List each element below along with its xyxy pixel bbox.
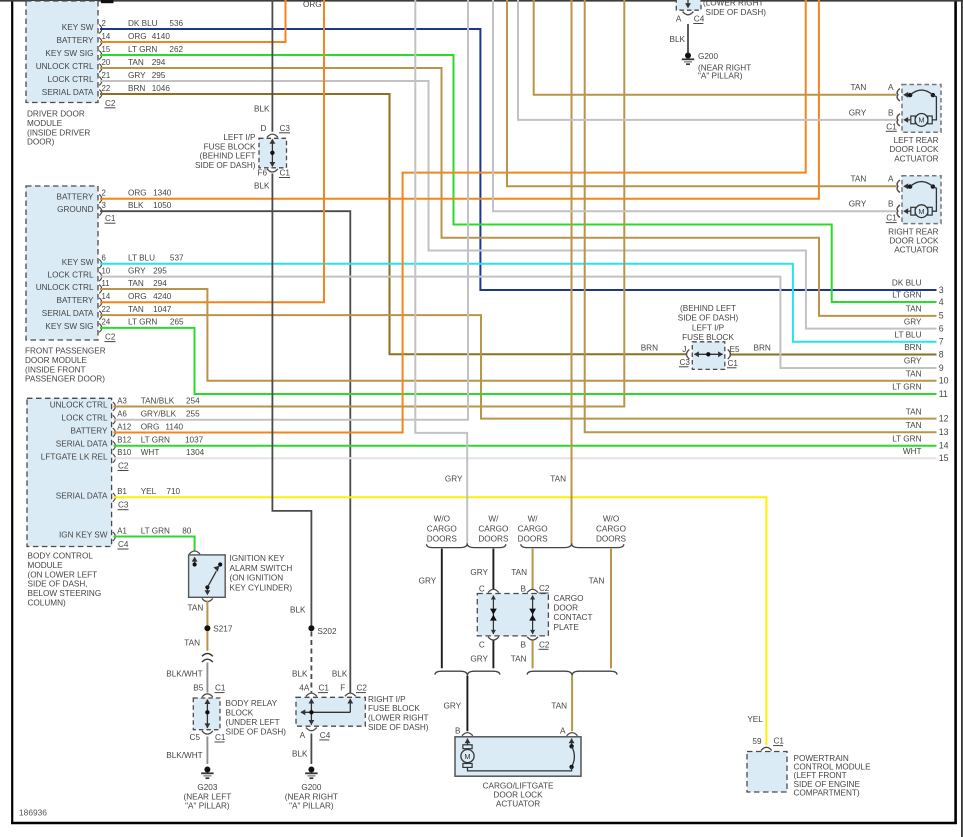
svg-text:TAN: TAN xyxy=(551,702,567,711)
svg-text:2: 2 xyxy=(102,189,106,198)
svg-text:7: 7 xyxy=(939,337,944,347)
svg-text:J: J xyxy=(682,345,686,354)
wire WHT 1304 BCM pin B10 to right stub 15 xyxy=(114,457,937,459)
powertrain control module caption xyxy=(794,754,872,797)
svg-text:LT GRN: LT GRN xyxy=(141,526,170,535)
wire TAN ignition switch to splice S217 xyxy=(206,601,208,626)
svg-text:DOOR LOCK: DOOR LOCK xyxy=(493,790,543,799)
svg-text:BLK: BLK xyxy=(254,104,270,113)
svg-text:B12: B12 xyxy=(117,436,131,445)
svg-text:13: 13 xyxy=(939,427,949,437)
ground G200 (bottom) caption xyxy=(285,783,338,811)
svg-text:B10: B10 xyxy=(117,448,132,457)
svg-text:LOCK CTRL: LOCK CTRL xyxy=(48,75,94,84)
svg-text:254: 254 xyxy=(186,396,200,405)
svg-text:A6: A6 xyxy=(117,410,127,419)
svg-text:4240: 4240 xyxy=(153,292,172,301)
svg-text:ACTUATOR: ACTUATOR xyxy=(496,799,540,808)
cargo/liftgate door lock actuator caption xyxy=(483,782,554,809)
svg-text:WHT: WHT xyxy=(903,447,922,456)
svg-text:C5: C5 xyxy=(190,733,201,742)
powertrain control module box xyxy=(747,752,787,793)
wire LT GRN 1037 BCM pin B12 to right stub 14 xyxy=(114,445,937,447)
svg-text:BELOW STEERING: BELOW STEERING xyxy=(28,589,102,598)
svg-text:LT BLU: LT BLU xyxy=(128,254,155,263)
svg-text:E5: E5 xyxy=(730,345,740,354)
svg-text:2: 2 xyxy=(102,19,106,28)
svg-text:4: 4 xyxy=(939,297,944,307)
right edge stub 14 LT GRN xyxy=(892,434,948,450)
svg-text:BLK: BLK xyxy=(332,669,348,678)
svg-text:BRN: BRN xyxy=(904,343,921,352)
svg-text:UNLOCK CTRL: UNLOCK CTRL xyxy=(36,283,94,292)
svg-text:FUSE BLOCK: FUSE BLOCK xyxy=(682,333,734,342)
right edge stub 6 GRY xyxy=(904,317,944,333)
wire ORG 1140 BCM pin A12 up off page xyxy=(114,0,806,433)
driver door module box xyxy=(26,1,98,103)
wire ORG 1340 passenger pin 2 up off page xyxy=(100,0,819,199)
svg-text:B: B xyxy=(521,585,527,594)
left rear door lock actuator pin A bracket xyxy=(897,89,900,101)
svg-text:CARGO/LIFTGATE: CARGO/LIFTGATE xyxy=(483,782,554,791)
svg-text:C1: C1 xyxy=(728,359,739,368)
wire TAN 294 passenger pin 11 to right stub 10 xyxy=(100,289,937,381)
front passenger door module pin 11 UNLOCK CTRL xyxy=(36,279,167,294)
svg-text:1340: 1340 xyxy=(153,189,172,198)
svg-text:BATTERY: BATTERY xyxy=(56,36,94,45)
svg-text:22: 22 xyxy=(102,305,111,314)
svg-text:BLK: BLK xyxy=(292,749,308,758)
svg-text:ORG: ORG xyxy=(303,0,322,9)
cargo/liftgate actuator pin brackets xyxy=(462,733,578,736)
body control module box xyxy=(27,398,112,546)
body control module pin B1 SERIAL DATA xyxy=(56,487,181,502)
splice S202 xyxy=(308,625,314,631)
right I/P fuse block (top fragment) caption xyxy=(703,0,766,17)
svg-text:LEFT I/P: LEFT I/P xyxy=(223,133,256,142)
wire BRN fuse block pin E5 to right stub 8 xyxy=(730,354,937,356)
cargo/liftgate actuator internal switch xyxy=(468,738,575,771)
svg-text:SIDE OF DASH): SIDE OF DASH) xyxy=(678,314,739,323)
svg-text:186936: 186936 xyxy=(19,808,47,818)
svg-text:5: 5 xyxy=(939,311,944,321)
svg-text:BRN: BRN xyxy=(128,84,145,93)
svg-text:DK BLU: DK BLU xyxy=(128,19,158,28)
body control module pin B10 LFTGATE LK REL xyxy=(41,448,205,463)
svg-text:YEL: YEL xyxy=(141,487,157,496)
wire BLK/WHT connector to body relay block pin B5 xyxy=(206,663,208,693)
splice S217 xyxy=(204,625,210,631)
svg-text:BRN: BRN xyxy=(641,344,658,353)
wire cargo column 4 (W/O cargo doors, TAN) xyxy=(610,549,612,669)
svg-text:SIDE OF DASH): SIDE OF DASH) xyxy=(706,8,767,17)
svg-text:20: 20 xyxy=(102,58,111,67)
svg-text:294: 294 xyxy=(153,279,167,288)
body control module pin A1 IGN KEY SW xyxy=(59,526,192,541)
svg-text:LT GRN: LT GRN xyxy=(141,436,170,445)
wire BLK/WHT body relay block to G203 xyxy=(206,737,208,765)
ground G200 (bottom) xyxy=(308,767,314,773)
left I/P fuse block (middle) caption xyxy=(678,304,739,342)
svg-text:TAN: TAN xyxy=(184,638,200,647)
svg-text:A1: A1 xyxy=(117,526,127,535)
cargo door contact plate bottom brackets xyxy=(488,637,538,640)
svg-text:YEL: YEL xyxy=(747,715,763,724)
svg-text:M: M xyxy=(464,752,470,761)
svg-text:B5: B5 xyxy=(193,684,203,693)
svg-text:TAN: TAN xyxy=(589,577,605,586)
wire cargo column 2 upper (W/ cargo doors, GRY) xyxy=(492,549,494,590)
svg-text:1047: 1047 xyxy=(153,305,172,314)
svg-text:GRY: GRY xyxy=(849,108,867,117)
wire BRN 1046 driver pin 22 to left I/P fuse block pin J xyxy=(100,94,687,354)
svg-text:14: 14 xyxy=(102,32,111,41)
wire GRY/BLK 255 BCM pin A6 up off page xyxy=(114,0,469,420)
ignition key alarm switch internals xyxy=(192,557,223,596)
svg-text:C3: C3 xyxy=(118,501,129,510)
ground G203 xyxy=(204,767,210,773)
svg-text:8: 8 xyxy=(939,349,944,359)
svg-text:GRY: GRY xyxy=(904,317,922,326)
right edge stub 9 GRY xyxy=(904,357,944,373)
wire cargo column 3 lower (TAN) xyxy=(532,641,534,669)
svg-text:RIGHT I/P: RIGHT I/P xyxy=(368,695,406,704)
right edge stub 10 TAN xyxy=(906,369,949,385)
svg-text:TAN: TAN xyxy=(851,175,867,184)
svg-text:TAN: TAN xyxy=(906,407,922,416)
svg-text:C4: C4 xyxy=(118,540,129,549)
svg-text:C2: C2 xyxy=(539,584,550,593)
svg-text:B: B xyxy=(888,108,894,117)
svg-text:SERIAL DATA: SERIAL DATA xyxy=(42,88,94,97)
svg-text:TAN/BLK: TAN/BLK xyxy=(141,396,175,405)
svg-text:CARGO: CARGO xyxy=(427,524,457,533)
svg-text:295: 295 xyxy=(152,71,166,80)
svg-text:C3: C3 xyxy=(280,124,291,133)
svg-text:ORG: ORG xyxy=(128,32,147,41)
wire cargo column 2 lower (GRY) xyxy=(492,641,494,669)
front passenger door module pin 22 SERIAL DATA xyxy=(42,305,172,320)
cargo door contact plate internal contact at x=532.6 xyxy=(529,595,536,634)
wire TAN from top to cargo door brace xyxy=(571,0,573,544)
ground G203 caption xyxy=(184,783,232,811)
svg-text:BODY RELAY: BODY RELAY xyxy=(226,699,278,708)
front passenger door module box xyxy=(26,186,98,340)
svg-text:M: M xyxy=(918,207,924,216)
svg-text:DOOR LOCK: DOOR LOCK xyxy=(889,237,939,246)
svg-text:CONTACT: CONTACT xyxy=(554,613,593,622)
svg-text:CARGO: CARGO xyxy=(478,524,508,533)
svg-text:C2: C2 xyxy=(105,333,116,342)
svg-text:294: 294 xyxy=(152,58,166,67)
svg-text:LT GRN: LT GRN xyxy=(892,383,921,392)
ground G200 (top) xyxy=(685,53,691,59)
wire BLK from top to left I/P fuse block pin D xyxy=(271,0,273,132)
svg-text:9: 9 xyxy=(939,363,944,373)
svg-text:KEY SW: KEY SW xyxy=(62,23,94,32)
svg-text:A12: A12 xyxy=(117,422,131,431)
svg-text:DK BLU: DK BLU xyxy=(892,279,922,288)
svg-text:CARGO: CARGO xyxy=(554,594,584,603)
svg-text:GRY/BLK: GRY/BLK xyxy=(141,410,177,419)
svg-text:GRY: GRY xyxy=(470,568,488,577)
svg-text:BLK: BLK xyxy=(670,35,686,44)
left rear door lock actuator box xyxy=(902,85,941,133)
svg-text:C: C xyxy=(479,585,485,594)
body relay block caption xyxy=(226,699,287,737)
svg-text:265: 265 xyxy=(170,318,184,327)
svg-text:TAN: TAN xyxy=(851,83,867,92)
svg-text:1050: 1050 xyxy=(153,201,172,210)
wire BLK dashed S202 to right I/P fuse block pin 4A xyxy=(310,632,312,693)
svg-text:GROUND: GROUND xyxy=(57,205,93,214)
svg-text:A3: A3 xyxy=(117,396,127,405)
svg-text:1037: 1037 xyxy=(185,436,204,445)
svg-text:W/: W/ xyxy=(488,515,499,524)
right rear door lock actuator labels xyxy=(849,175,894,209)
svg-text:12: 12 xyxy=(939,413,949,423)
wire BLK left I/P fuse block pin F6 down to splice S202 xyxy=(272,174,311,626)
svg-text:GRY: GRY xyxy=(849,200,867,209)
svg-text:1140: 1140 xyxy=(165,422,183,431)
driver door module caption xyxy=(27,110,90,147)
svg-text:255: 255 xyxy=(186,410,200,419)
svg-text:GRY: GRY xyxy=(445,474,463,483)
svg-text:BLK: BLK xyxy=(290,606,306,615)
wire TAN 1047 passenger pin 22 to right stub 12 xyxy=(100,315,937,419)
cargo doors column label W/O CARGO DOORS xyxy=(427,515,458,544)
svg-text:GRY: GRY xyxy=(904,357,922,366)
top crop line xyxy=(0,0,963,3)
svg-text:11: 11 xyxy=(939,389,948,399)
wire LT GRN 262 driver pin 15 to right stub 4 xyxy=(100,55,937,302)
left I/P fuse block (middle) box xyxy=(687,342,731,370)
svg-text:FRONT PASSENGER: FRONT PASSENGER xyxy=(25,347,106,356)
svg-text:15: 15 xyxy=(939,453,949,463)
svg-text:"A" PILLAR): "A" PILLAR) xyxy=(185,802,230,811)
driver door module pin 15 KEY SW SIG xyxy=(45,45,183,60)
svg-text:TAN: TAN xyxy=(511,568,527,577)
wire BLK right I/P fuse block to G200 xyxy=(310,734,312,765)
right I/P fuse block (bottom) box xyxy=(296,693,365,731)
svg-text:(LOWER RIGHT: (LOWER RIGHT xyxy=(703,0,764,8)
svg-text:FUSE BLOCK: FUSE BLOCK xyxy=(204,142,256,151)
svg-text:KEY CYLINDER): KEY CYLINDER) xyxy=(230,584,293,593)
svg-text:F6: F6 xyxy=(257,169,267,178)
svg-text:LT GRN: LT GRN xyxy=(128,45,157,54)
svg-text:TAN: TAN xyxy=(550,474,566,483)
svg-text:BATTERY: BATTERY xyxy=(56,193,94,202)
wire TAN/BLK 254 BCM pin A3 up off page xyxy=(114,0,625,407)
svg-text:LFTGATE LK REL: LFTGATE LK REL xyxy=(41,452,108,461)
svg-text:710: 710 xyxy=(166,487,180,496)
wire GRY brace to cargo actuator pin B xyxy=(466,676,468,731)
svg-text:SIDE OF DASH): SIDE OF DASH) xyxy=(195,161,256,170)
svg-text:G200: G200 xyxy=(698,52,718,61)
svg-text:TAN: TAN xyxy=(128,305,144,314)
svg-text:295: 295 xyxy=(153,266,167,275)
right edge stub 12 TAN xyxy=(906,407,949,423)
svg-text:SERIAL DATA: SERIAL DATA xyxy=(42,309,94,318)
svg-text:(BEHIND LEFT: (BEHIND LEFT xyxy=(680,304,736,313)
right edge stub 15 WHT xyxy=(903,447,949,463)
svg-text:C1: C1 xyxy=(105,214,116,223)
svg-text:SIDE OF DASH): SIDE OF DASH) xyxy=(226,728,287,737)
svg-text:TAN: TAN xyxy=(906,305,922,314)
svg-text:G200: G200 xyxy=(301,783,321,792)
wire ORG 4140 driver pin 14 up off page xyxy=(100,0,286,42)
svg-text:GRY: GRY xyxy=(128,71,146,80)
svg-text:COLUMN): COLUMN) xyxy=(28,599,66,608)
wire ORG 4240 passenger pin 14 up off page xyxy=(100,0,324,302)
svg-text:LOCK CTRL: LOCK CTRL xyxy=(48,271,94,280)
svg-text:(ON IGNITION: (ON IGNITION xyxy=(230,574,284,583)
right edge stub 13 TAN xyxy=(906,421,949,437)
inline connector on G203 branch xyxy=(202,654,213,663)
left I/P fuse block (top) box xyxy=(259,134,287,172)
svg-text:KEY SW: KEY SW xyxy=(62,258,94,267)
svg-text:DOORS: DOORS xyxy=(518,534,549,543)
svg-text:BLOCK: BLOCK xyxy=(226,709,254,718)
svg-text:GRY: GRY xyxy=(128,266,146,275)
svg-text:C2: C2 xyxy=(539,640,550,649)
svg-text:W/O: W/O xyxy=(434,515,450,524)
svg-text:KEY SW SIG: KEY SW SIG xyxy=(45,49,93,58)
wire DK BLU 536 driver pin 2 to right stub 3 xyxy=(100,29,937,290)
svg-text:RIGHT REAR: RIGHT REAR xyxy=(888,227,938,236)
svg-text:KEY SW SIG: KEY SW SIG xyxy=(45,322,93,331)
svg-text:W/O: W/O xyxy=(603,515,619,524)
svg-text:10: 10 xyxy=(102,266,111,275)
wire BLK 1050 passenger pin 3 to right I/P fuse block pin F xyxy=(100,211,350,693)
front passenger door module pin 14 BATTERY xyxy=(56,292,171,307)
svg-text:ALARM SWITCH: ALARM SWITCH xyxy=(230,564,293,573)
svg-text:BRN: BRN xyxy=(754,344,771,353)
cargo doors column label W/ CARGO DOORS xyxy=(518,515,549,544)
svg-text:TAN: TAN xyxy=(511,654,527,663)
svg-text:10: 10 xyxy=(939,376,949,386)
driver door module pin 22 SERIAL DATA xyxy=(42,84,171,99)
svg-text:WHT: WHT xyxy=(141,448,160,457)
svg-text:LT GRN: LT GRN xyxy=(128,318,157,327)
right edge stub 3 DK BLU xyxy=(892,279,944,295)
svg-text:BLK: BLK xyxy=(128,201,144,210)
svg-text:A: A xyxy=(888,83,894,92)
svg-text:LEFT I/P: LEFT I/P xyxy=(692,323,725,332)
wire TAN S217 to inline connector xyxy=(206,631,208,651)
svg-text:BLK/WHT: BLK/WHT xyxy=(166,751,202,760)
left rear door lock actuator motor M xyxy=(903,114,932,127)
svg-text:TAN: TAN xyxy=(906,369,922,378)
svg-text:59: 59 xyxy=(752,737,762,746)
svg-text:BATTERY: BATTERY xyxy=(56,296,94,305)
right rear door lock actuator internal switch xyxy=(903,182,936,212)
front passenger door module pin 10 LOCK CTRL xyxy=(48,266,168,281)
svg-text:C3: C3 xyxy=(680,358,691,367)
svg-text:C1: C1 xyxy=(215,684,226,693)
svg-text:LOCK CTRL: LOCK CTRL xyxy=(62,414,108,423)
svg-text:6: 6 xyxy=(102,254,106,263)
svg-text:GRY: GRY xyxy=(470,654,488,663)
cargo/liftgate door lock actuator box xyxy=(455,737,581,776)
svg-text:BLK: BLK xyxy=(254,182,270,191)
cargo/liftgate actuator motor M xyxy=(461,738,474,767)
left rear door lock actuator caption xyxy=(889,136,939,163)
driver door module pin 2 KEY SW xyxy=(62,19,184,34)
svg-text:B: B xyxy=(888,200,894,209)
svg-text:(BEHIND LEFT: (BEHIND LEFT xyxy=(200,152,256,161)
svg-text:262: 262 xyxy=(169,45,183,54)
svg-text:BLK: BLK xyxy=(292,669,308,678)
svg-text:G203: G203 xyxy=(197,783,217,792)
svg-text:C1: C1 xyxy=(319,684,330,693)
right rear door lock actuator pin B bracket xyxy=(897,205,900,217)
svg-text:A: A xyxy=(300,731,306,740)
wire GRY from top to cargo door brace xyxy=(415,0,467,544)
driver door module pin 20 UNLOCK CTRL xyxy=(36,58,166,73)
cargo doors column label W/ CARGO DOORS xyxy=(478,515,509,544)
svg-text:C1: C1 xyxy=(215,733,226,742)
svg-text:C4: C4 xyxy=(694,15,705,24)
svg-text:A: A xyxy=(888,175,894,184)
svg-text:ORG: ORG xyxy=(128,292,147,301)
svg-text:SERIAL DATA: SERIAL DATA xyxy=(56,491,108,500)
svg-text:BODY CONTROL: BODY CONTROL xyxy=(28,552,94,561)
svg-text:FUSE BLOCK: FUSE BLOCK xyxy=(368,704,420,713)
svg-text:BLK/WHT: BLK/WHT xyxy=(166,669,202,678)
svg-text:LEFT REAR: LEFT REAR xyxy=(894,136,939,145)
right edge stub 8 BRN xyxy=(904,343,943,359)
right rear door lock actuator caption xyxy=(888,227,939,254)
top brace W/ + W/O cargo doors (right pair) xyxy=(521,543,624,547)
svg-text:ACTUATOR: ACTUATOR xyxy=(894,154,938,163)
svg-text:15: 15 xyxy=(102,45,111,54)
cargo doors column label W/O CARGO DOORS xyxy=(596,515,627,544)
svg-text:CARGO: CARGO xyxy=(518,524,548,533)
driver door module pin 21 LOCK CTRL xyxy=(48,71,166,86)
svg-text:W/: W/ xyxy=(528,515,539,524)
wire GRY from top to right rear door lock actuator pin B xyxy=(493,0,896,211)
svg-text:COMPARTMENT): COMPARTMENT) xyxy=(794,788,860,797)
wire TAN from top to right stub 13 xyxy=(585,0,937,432)
wire LT GRN 80 BCM pin A1 to ignition key alarm switch xyxy=(114,537,195,552)
svg-text:PLATE: PLATE xyxy=(554,623,580,632)
wire TAN 294 driver pin 20 to right stub 5 xyxy=(100,68,937,316)
svg-text:GRY: GRY xyxy=(419,577,437,586)
svg-text:C1: C1 xyxy=(280,169,291,178)
svg-text:PASSENGER DOOR): PASSENGER DOOR) xyxy=(25,375,105,384)
wire LT BLU 537 passenger pin 6 to right stub 7 xyxy=(100,264,937,342)
front passenger door module caption xyxy=(25,347,106,384)
svg-text:B: B xyxy=(455,727,461,736)
right edge stub 4 LT GRN xyxy=(892,291,943,307)
svg-text:(UNDER LEFT: (UNDER LEFT xyxy=(226,718,280,727)
svg-text:GRY: GRY xyxy=(443,702,461,711)
svg-text:(ON LOWER LEFT: (ON LOWER LEFT xyxy=(28,570,98,579)
svg-text:DRIVER DOOR: DRIVER DOOR xyxy=(27,110,85,119)
svg-text:C: C xyxy=(479,640,485,649)
svg-text:80: 80 xyxy=(182,526,192,535)
svg-text:11: 11 xyxy=(102,279,110,288)
body control module pin A3 UNLOCK CTRL xyxy=(50,396,200,411)
svg-text:"A" PILLAR): "A" PILLAR) xyxy=(289,802,334,811)
front passenger door module pin 2 BATTERY xyxy=(56,189,171,204)
right rear door lock actuator box xyxy=(902,176,941,224)
body control module pin B12 SERIAL DATA xyxy=(56,436,204,451)
bottom brace left pair xyxy=(435,671,500,676)
wire LT GRN 265 passenger pin 24 to right stub 11 xyxy=(100,328,937,394)
right edge stub 11 LT GRN xyxy=(892,383,948,399)
